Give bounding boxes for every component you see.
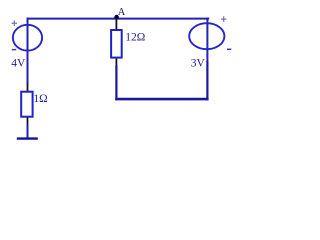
wire bottom of inner loop <box>115 98 208 101</box>
ground reference bar <box>17 137 38 139</box>
plus terminal of 4V source <box>12 21 17 26</box>
wire black lead above R 1ohm <box>27 84 29 92</box>
wire top horizontal from 4V source to 3V source <box>27 18 210 20</box>
wire right branch vertical lower <box>206 61 208 100</box>
wire blue lead to ground <box>27 125 29 138</box>
wire black lead below R 12ohm <box>115 59 117 67</box>
plus terminal of 3V source <box>221 16 226 21</box>
svg-text:1Ω: 1Ω <box>33 93 47 105</box>
voltage source V2 3V <box>189 23 224 49</box>
voltage source V1 4V <box>13 25 42 51</box>
resistor R2 12ohm box <box>111 30 122 58</box>
svg-text:A: A <box>118 7 126 18</box>
wire black lead below R 1ohm <box>27 117 29 126</box>
wire black lead from node A to R 12ohm <box>115 18 117 30</box>
svg-text:12Ω: 12Ω <box>125 31 145 43</box>
wire left side of inner loop <box>115 66 117 101</box>
minus terminal of 4V source <box>12 49 16 51</box>
svg-text:4V: 4V <box>11 58 26 70</box>
minus terminal of 3V source <box>227 48 231 50</box>
resistor R1 1ohm box <box>21 92 32 117</box>
node A junction dot <box>114 15 119 20</box>
wire left branch vertical through 4V source <box>27 18 29 85</box>
wire right branch vertical upper through 3V source <box>206 18 208 62</box>
svg-text:3V: 3V <box>191 58 206 70</box>
